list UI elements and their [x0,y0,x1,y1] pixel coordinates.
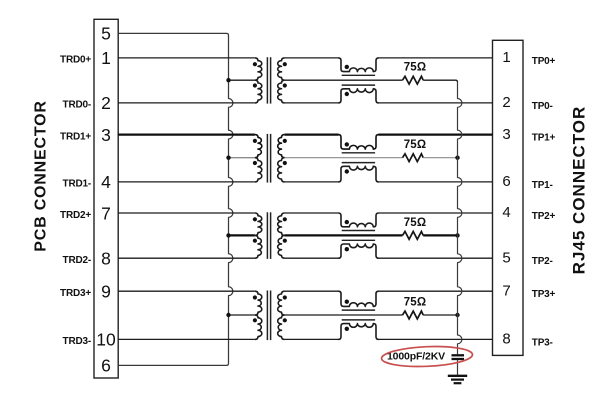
wire TRD1- pin to transformer T2 (bottom, left) [118,181,255,183]
svg-text:PCB CONNECTOR: PCB CONNECTOR [32,100,49,251]
transformer T4 primary dot (pin side, upper) [253,295,257,299]
svg-text:6: 6 [101,356,111,376]
wire choke L4 top to RJ45 (TP3+) [379,290,493,292]
wire TRD2+ pin to transformer T3 (top, left) [118,212,255,214]
transformer T1 secondary winding upper [278,58,285,80]
transformer T1 primary dot (pin side, upper) [253,62,257,66]
transformer T3 core [266,212,268,259]
transformer T1 secondary winding lower [278,80,285,103]
svg-text:TRD0+: TRD0+ [60,55,91,66]
wire T3 secondary center tap through choke to resistor R3 [285,234,403,236]
wire choke L2 top to RJ45 (TP1+) [379,133,493,135]
wire TRD1+ pin to transformer T2 (top, left) [118,133,255,135]
svg-text:75Ω: 75Ω [404,62,427,74]
ground symbol [448,375,467,377]
wire T1 secondary bottom to choke L1 [285,102,339,104]
transformer T1 primary winding upper [255,58,262,80]
choke L4 top winding dot [345,300,349,304]
transformer T3 primary winding upper [255,213,262,235]
svg-text:TRD0-: TRD0- [63,100,91,111]
common-mode choke L3 top winding [338,213,378,227]
svg-text:1000pF/2KV: 1000pF/2KV [387,351,445,363]
choke L3 bottom winding [338,244,378,258]
choke L1 bottom winding dot [345,92,349,96]
transformer T3 secondary winding upper [278,213,285,235]
wire T4 secondary top to choke L4 [285,290,339,292]
transformer T1 secondary dot (upper) [283,62,287,66]
common-mode choke L2 top winding [338,135,378,150]
transformer T4 primary winding lower [255,315,262,339]
transformer T3 secondary dot (lower) [283,239,287,243]
svg-text:3: 3 [101,125,111,145]
transformer T2 secondary winding upper [278,135,285,158]
transformer T1 primary dot (lower) [253,83,257,87]
transformer T3 primary dot (lower) [253,239,257,243]
wire R3 to termination rail (junction dot) [423,234,457,236]
resistor R4 75ohm [403,311,424,319]
svg-text:1: 1 [101,48,111,68]
transformer T1 secondary dot (lower) [283,83,287,87]
wire choke L1 top to RJ45 (TP0+) [379,57,493,59]
termination rail (common point of 75ohm resistors, with crossover hops) [458,82,462,354]
wire T2 secondary bottom to choke L2 [285,181,339,183]
wire TRD3+ pin to transformer T4 (top, left) [118,290,255,292]
wire pin5 to center-tap rail (left rail with crossover hops) [118,33,233,365]
transformer T4 core [266,291,268,341]
wire T1 secondary center tap through choke to resistor R1 [285,79,403,81]
choke L1 core lines [342,74,375,76]
svg-text:7: 7 [101,203,111,223]
svg-text:TRD1-: TRD1- [63,179,91,190]
wire TRD0+ pin to transformer T1 (top, left) [118,57,255,59]
transformer T2 primary dot (lower) [253,161,257,165]
svg-text:TRD1+: TRD1+ [60,131,91,142]
wire T3 secondary bottom to choke L3 [285,257,339,259]
wire TRD0- pin to transformer T1 (bottom, left) [118,102,255,104]
svg-text:TP3-: TP3- [532,337,553,348]
transformer T1 primary winding lower [255,80,262,103]
svg-text:7: 7 [502,282,510,299]
svg-text:8: 8 [101,249,111,269]
resistor R3 75ohm [403,232,424,240]
RJ45 connector box [493,40,524,355]
wire TRD2- pin to transformer T3 (bottom, left) [118,257,255,259]
wire center tap rail to T1 primary (junction dot) [229,79,255,81]
transformer T3 secondary winding lower [278,235,285,258]
svg-text:5: 5 [101,24,111,44]
transformer T2 primary dot (pin side, upper) [253,139,257,143]
svg-text:2: 2 [502,94,510,111]
choke L1 bottom winding [338,89,378,103]
wire choke L4 bottom to RJ45 (TP3-) [379,338,493,340]
transformer T2 primary winding upper [255,135,262,158]
transformer T4 secondary winding upper [278,291,285,315]
PCB connector box [94,19,118,378]
svg-text:TP3+: TP3+ [532,289,556,300]
wire T4 secondary bottom to choke L4 [285,338,339,340]
wire T1 secondary top to choke L1 [285,57,339,59]
common-mode choke L1 top winding [338,58,378,72]
red highlight ellipse around 1000pF/2KV capacitor [381,345,473,369]
svg-text:TP1+: TP1+ [532,133,556,144]
wire choke L3 bottom to RJ45 (TP2-) [379,257,493,259]
wire R4 to termination rail (junction dot) [423,314,457,316]
svg-text:9: 9 [101,282,111,302]
svg-text:8: 8 [502,331,510,348]
svg-text:TP2+: TP2+ [532,211,556,222]
svg-text:TRD2+: TRD2+ [60,210,91,221]
wire center tap rail to T2 primary (junction dot) [229,157,255,159]
svg-text:75Ω: 75Ω [404,139,427,151]
wire capacitor to ground [457,360,459,376]
transformer T2 core [266,134,268,183]
transformer T2 secondary dot (lower) [283,161,287,165]
transformer T4 secondary dot (lower) [283,318,287,322]
wire T2 secondary center tap through choke to resistor R2 [285,157,403,159]
svg-text:TP0+: TP0+ [532,56,556,67]
svg-text:RJ45 CONNECTOR: RJ45 CONNECTOR [569,106,588,275]
svg-text:2: 2 [101,93,111,113]
choke L3 top winding dot [345,220,349,224]
transformer T3 secondary dot (upper) [283,217,287,221]
svg-text:4: 4 [101,172,111,192]
wire T2 secondary top to choke L2 [285,133,339,135]
svg-text:TP1-: TP1- [532,180,553,191]
wire choke L3 top to RJ45 (TP2+) [379,212,493,214]
svg-text:75Ω: 75Ω [404,217,427,229]
svg-text:TRD2-: TRD2- [63,255,91,266]
choke L2 bottom winding [338,166,378,182]
choke L2 top winding dot [345,142,349,146]
transformer T3 primary dot (pin side, upper) [253,217,257,221]
svg-text:5: 5 [502,249,510,266]
wire T4 secondary center tap through choke to resistor R4 [285,314,403,316]
capacitor C1 1000pF/2KV plates [452,354,465,356]
choke L2 bottom winding dot [345,169,349,173]
wire choke L2 bottom to RJ45 (TP1-) [379,181,493,183]
choke L2 core lines [342,152,375,154]
transformer T3 primary winding lower [255,235,262,258]
svg-text:3: 3 [502,126,510,143]
transformer T1 core [266,57,268,103]
svg-text:TRD3+: TRD3+ [60,288,91,299]
wire choke L1 bottom to RJ45 (TP0-) [379,102,493,104]
svg-text:10: 10 [96,330,116,350]
choke L4 bottom winding dot [345,327,349,331]
wire R2 to termination rail (junction dot) [423,157,457,159]
svg-text:TRD3-: TRD3- [63,336,91,347]
svg-text:75Ω: 75Ω [404,296,427,308]
svg-text:TP0-: TP0- [532,101,553,112]
choke L4 core lines [342,309,375,311]
svg-text:TP2-: TP2- [532,256,553,267]
choke L4 bottom winding [338,324,378,340]
choke L3 core lines [342,230,375,232]
transformer T4 primary winding upper [255,291,262,315]
wire T3 secondary top to choke L3 [285,212,339,214]
transformer T4 secondary winding lower [278,315,285,339]
wire R1 to termination rail (corner) [423,80,457,82]
resistor R2 75ohm [403,154,424,162]
transformer T4 secondary dot (upper) [283,295,287,299]
transformer T2 primary winding lower [255,158,262,182]
transformer T4 primary dot (lower) [253,318,257,322]
wire center tap rail to T4 primary (junction dot) [229,314,255,316]
transformer T2 secondary dot (upper) [283,139,287,143]
transformer T2 secondary winding lower [278,158,285,182]
wire center tap rail to T3 primary (junction dot) [229,234,255,236]
resistor R1 75ohm [403,76,424,84]
common-mode choke L4 top winding [338,291,378,306]
choke L3 bottom winding dot [345,247,349,251]
svg-text:4: 4 [502,204,510,221]
svg-text:1: 1 [502,49,510,66]
wire TRD3- pin to transformer T4 (bottom, left) [118,338,255,340]
svg-text:6: 6 [502,173,510,190]
choke L1 top winding dot [345,65,349,69]
